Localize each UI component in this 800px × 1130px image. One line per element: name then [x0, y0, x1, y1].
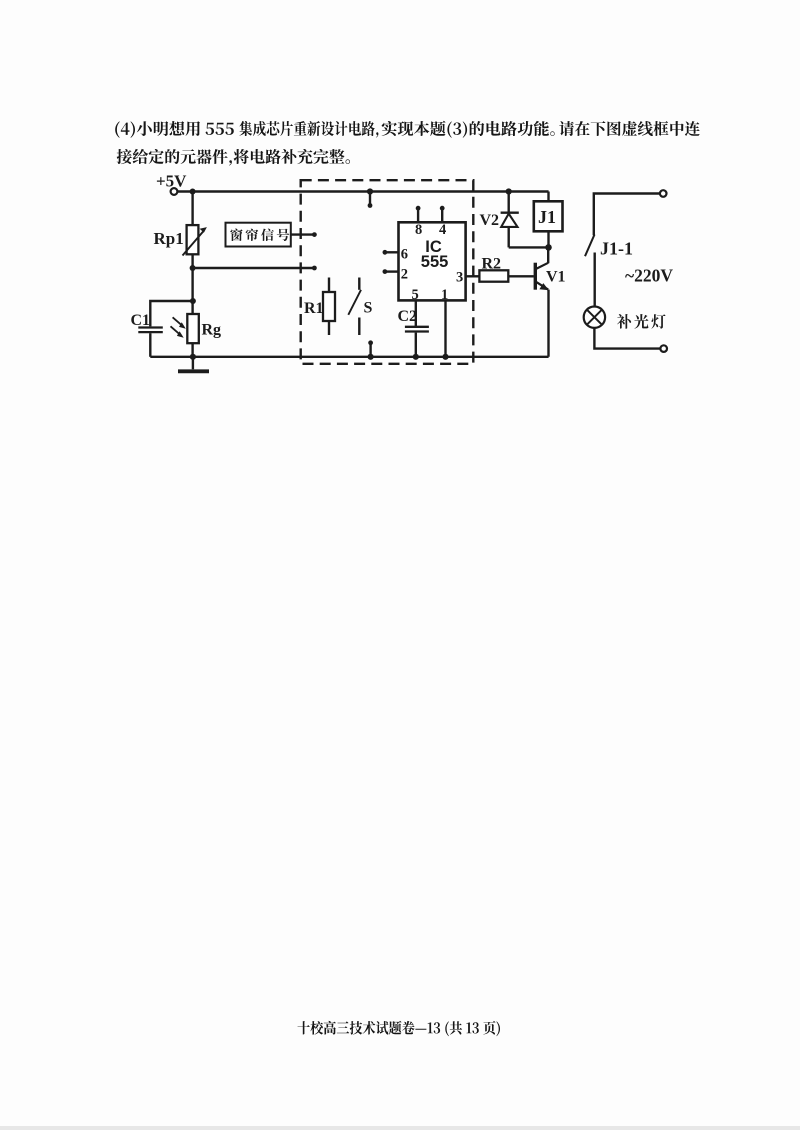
svg-text:V2: V2	[480, 212, 500, 229]
switch S	[348, 278, 361, 336]
resistor Rp1	[183, 225, 207, 255]
svg-text:V1: V1	[546, 269, 566, 286]
terminal +5V	[171, 188, 178, 195]
relay contact J1-1	[585, 235, 595, 257]
svg-text:555: 555	[421, 253, 449, 271]
paragraph text line 2	[117, 149, 350, 166]
node open end dot	[312, 232, 317, 237]
wire top right	[594, 194, 660, 236]
wire Rp1 branch vertical	[191, 192, 193, 269]
node open end dot	[312, 266, 317, 271]
svg-text:S: S	[364, 300, 373, 317]
node junction J1/V1	[545, 244, 552, 251]
svg-text:6: 6	[401, 247, 408, 263]
pin 2 stub	[385, 270, 398, 272]
wire C1 top branch	[150, 301, 193, 326]
pin 6 stub	[385, 251, 398, 253]
svg-text:R2: R2	[482, 256, 502, 273]
svg-text:J1-1: J1-1	[600, 239, 633, 259]
transistor V1	[535, 250, 549, 357]
node junction at Rp1 top	[190, 189, 196, 195]
node junction top stub	[367, 188, 373, 194]
capacitor C1	[138, 328, 163, 333]
wire C1 bottom branch	[149, 333, 151, 357]
wire bottom stub	[369, 344, 371, 357]
capacitor C2	[405, 327, 429, 332]
pin 4 stub	[441, 209, 443, 223]
node junction Rp1 bottom	[190, 265, 196, 271]
svg-text:J1: J1	[538, 207, 556, 227]
footer text	[298, 1021, 501, 1036]
relay J1	[534, 192, 563, 248]
svg-text:Rp1: Rp1	[154, 229, 184, 248]
wire +5V top rail	[178, 190, 549, 192]
svg-text:+5V: +5V	[156, 172, 187, 191]
wire pin3 to R2	[466, 275, 480, 277]
lamp 补光灯	[584, 307, 605, 328]
svg-text:2: 2	[401, 267, 408, 283]
diode V2	[501, 192, 519, 248]
IC U1 555 timer body	[399, 222, 466, 300]
terminal bottom right	[660, 345, 667, 352]
svg-text:4: 4	[439, 222, 446, 238]
resistor R2	[479, 270, 508, 281]
node junction C1 split	[190, 298, 196, 304]
node junction V2 top	[506, 188, 512, 194]
bottom scan strip	[0, 1126, 800, 1130]
wire C2 to bottom rail	[415, 333, 417, 357]
node stub end dot	[368, 340, 373, 345]
svg-text:~220V: ~220V	[625, 266, 673, 286]
wire contact to lamp	[594, 253, 596, 307]
wire pin1 to bottom rail	[444, 300, 446, 356]
svg-text:Rg: Rg	[202, 322, 222, 339]
svg-text:C2: C2	[398, 308, 418, 325]
wire bottom rail	[150, 356, 548, 358]
node junction C2	[413, 354, 419, 360]
terminal top right	[660, 190, 667, 197]
node junction pin1	[442, 354, 448, 360]
wire top stub	[369, 192, 371, 205]
wire pin5 to C2	[415, 300, 417, 326]
wire from Rp1 bottom node to dashed box	[193, 267, 315, 269]
paragraph text line 1	[115, 121, 200, 138]
resistor R1	[323, 278, 335, 336]
ground	[178, 357, 209, 372]
svg-text:C1: C1	[131, 312, 151, 329]
signal source box 窗帘信号	[226, 223, 291, 247]
node junction bottom stub	[368, 354, 374, 360]
node stub end dot	[368, 203, 373, 208]
wire lamp to bottom terminal	[594, 328, 660, 349]
wire R2 to base	[508, 275, 534, 277]
wire V2 bottom to J1 bottom	[509, 246, 549, 248]
wire signal box to dashed border	[291, 233, 315, 235]
dashed frame box	[301, 180, 474, 364]
svg-text:R1: R1	[304, 300, 324, 317]
wire Rg branch vertical	[191, 268, 193, 357]
svg-text:8: 8	[415, 222, 422, 238]
node junction ground	[190, 354, 196, 360]
photoresistor Rg	[171, 314, 199, 343]
svg-text:3: 3	[456, 270, 463, 286]
pin 8 stub	[417, 209, 419, 223]
